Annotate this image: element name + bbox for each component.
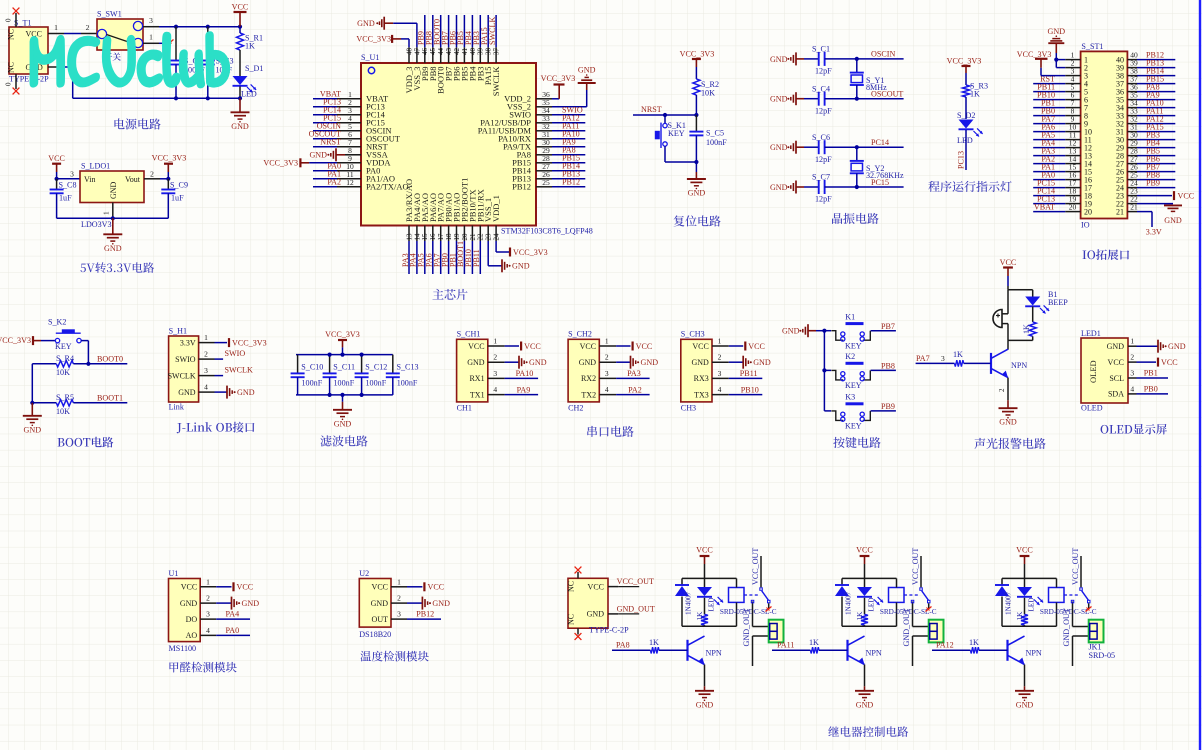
svg-text:GND: GND: [334, 419, 352, 428]
ground GND at pin22: [1164, 205, 1182, 225]
pin 2 GND of U2: [371, 594, 407, 608]
ground GND: [631, 356, 659, 369]
pin 7 of S_ST1: [1065, 98, 1088, 112]
net PB11: [740, 369, 758, 378]
wire ST1 pin28: [1137, 155, 1175, 157]
svg-text:TX1: TX1: [470, 390, 485, 399]
capacitor S_C13: [386, 355, 419, 395]
transistor NPN: [991, 349, 1027, 392]
svg-text:20: 20: [1084, 208, 1092, 217]
wire vcc stem: [342, 347, 344, 354]
svg-text:1K: 1K: [969, 638, 979, 647]
svg-text:GND: GND: [109, 181, 118, 199]
net PA6: [425, 253, 434, 267]
svg-text:VCC: VCC: [524, 342, 541, 351]
net PB11: [472, 249, 481, 267]
svg-text:PB8: PB8: [881, 362, 895, 371]
net PA10: [562, 130, 580, 139]
svg-text:1N4007: 1N4007: [685, 591, 693, 615]
svg-text:DS18B20: DS18B20: [359, 630, 391, 639]
wire vcc to rail: [864, 564, 866, 578]
svg-text:GND: GND: [641, 358, 659, 367]
net PA3: [401, 253, 410, 267]
ground GND: [23, 403, 42, 435]
pin 11 of S_ST1: [1065, 130, 1092, 144]
svg-text:K2: K2: [845, 352, 855, 361]
pin 3 DO of U1: [186, 610, 217, 624]
pin 1 VCC of S_CH2: [580, 337, 616, 351]
svg-text:46: 46: [421, 48, 429, 56]
svg-text:SWCLK: SWCLK: [491, 66, 501, 97]
svg-text:GND_OUT: GND_OUT: [617, 604, 655, 613]
wire pin21 3V3: [1137, 212, 1152, 227]
svg-text:1: 1: [102, 211, 111, 215]
svg-text:S_C4: S_C4: [812, 84, 830, 93]
resistor S_R1: [237, 27, 264, 57]
pin GND of LDO: [112, 203, 114, 219]
svg-text:40: 40: [469, 48, 477, 56]
wire ST1 pin39: [1137, 67, 1175, 69]
svg-text:S_D2: S_D2: [957, 111, 975, 120]
svg-text:1K: 1K: [809, 638, 819, 647]
net PB13: [562, 170, 580, 179]
wire U1 pin5: [313, 130, 337, 132]
wire U1 pin10: [313, 170, 337, 172]
svg-text:S_C1: S_C1: [812, 45, 830, 54]
svg-text:1K: 1K: [1016, 611, 1024, 621]
net VCC_OUT: [911, 548, 920, 585]
pin 3 PC14 of U1: [337, 106, 386, 120]
svg-text:GND: GND: [999, 418, 1017, 427]
wire U1 pin3: [313, 114, 337, 116]
svg-text:1: 1: [397, 577, 401, 586]
junction: [360, 353, 364, 357]
junction: [694, 113, 698, 117]
svg-text:42: 42: [453, 48, 461, 56]
svg-text:GND: GND: [512, 262, 530, 271]
power VCC_3V3 at VDD_1: [510, 248, 548, 257]
power VCC: [633, 342, 653, 351]
wire SW1 pin1 stub: [159, 40, 174, 45]
net SWIO: [562, 106, 583, 115]
net PA12: [562, 114, 580, 123]
svg-text:3: 3: [718, 369, 722, 378]
net PA12: [936, 641, 954, 650]
pin 13 PA3/RX/AO of U1: [404, 179, 414, 241]
svg-text:S_C9: S_C9: [170, 181, 188, 190]
svg-text:VCC_3V3: VCC_3V3: [152, 154, 187, 163]
wire U1 pin2: [313, 106, 337, 108]
wire emitter to gnd: [1024, 665, 1026, 687]
wire pin1: [215, 342, 228, 344]
net PB7: [1146, 162, 1160, 171]
junction: [694, 160, 698, 164]
wire relay top rail: [842, 577, 897, 579]
net PB7: [881, 322, 895, 331]
wire ST1 pin29: [1137, 147, 1175, 149]
net PB15: [562, 154, 580, 163]
svg-text:4: 4: [1130, 384, 1134, 393]
net OSCOUT: [309, 130, 341, 139]
ground GND: [855, 686, 874, 709]
wire vcc to pin 3: [1041, 68, 1065, 76]
svg-text:VCC: VCC: [696, 546, 713, 555]
LED S_D1: [233, 57, 264, 99]
svg-text:U2: U2: [359, 569, 369, 578]
relay coil box: [1049, 578, 1065, 626]
pin 27 PB14 of U1: [512, 162, 552, 176]
switch S_SW1: [97, 10, 143, 51]
svg-text:GND: GND: [529, 358, 547, 367]
resistor 1K: [1022, 307, 1036, 341]
capacitor S_C7: [804, 173, 904, 204]
svg-text:PB0: PB0: [1144, 384, 1158, 393]
net PA2: [1041, 154, 1055, 163]
svg-text:1: 1: [149, 33, 153, 42]
svg-text:S_C8: S_C8: [59, 181, 77, 190]
wire U1 pin11: [313, 178, 337, 180]
power VCC_3V3: [947, 56, 982, 73]
pin 44 BOOT0 of U1: [436, 47, 446, 94]
svg-text:3: 3: [70, 170, 74, 179]
pin 1 GND of LED1: [1107, 337, 1137, 351]
diode 1N4007: [835, 578, 853, 626]
wire vcc down: [1007, 276, 1009, 290]
terminal block connector: [1089, 620, 1104, 643]
svg-text:GND: GND: [770, 95, 788, 104]
wire U1 pin12: [313, 186, 337, 188]
svg-text:LDO3V3: LDO3V3: [81, 220, 112, 229]
wire ST1 pin8: [1033, 115, 1065, 117]
wire VCC to Vin: [57, 172, 80, 179]
ground GND: [695, 686, 714, 709]
svg-text:NRST: NRST: [641, 105, 662, 114]
svg-text:4: 4: [718, 385, 722, 394]
svg-text:RX3: RX3: [694, 374, 709, 383]
svg-text:18: 18: [445, 233, 453, 241]
pin 29 PA8 of U1: [517, 146, 552, 160]
wire gnd: [729, 361, 743, 363]
pin NC top with no-ERC: [5, 8, 20, 27]
junction: [663, 113, 667, 117]
net PB1: [1144, 368, 1158, 377]
wire U1 pin25: [552, 186, 585, 188]
resistor 1K: [696, 598, 708, 627]
label SRD-05VDC-SL-C: [720, 608, 777, 616]
wire bottom junction: [1008, 339, 1033, 341]
resistor 1K base: [809, 638, 819, 653]
wire U1 pin4: [313, 122, 337, 124]
power VCC_3V3: [229, 338, 267, 347]
pin 3 RX3 of S_CH3: [694, 369, 729, 383]
pin 2 GND of S_CH3: [691, 353, 728, 367]
svg-text:TX2: TX2: [581, 390, 596, 399]
net PA11: [562, 122, 579, 131]
wire terminal 1: [911, 600, 928, 626]
svg-text:VCC: VCC: [48, 154, 65, 163]
svg-text:TYPE-C-2P: TYPE-C-2P: [589, 625, 629, 634]
net PC14: [1037, 186, 1055, 195]
wire ST1 pin19: [1033, 203, 1065, 205]
wire ST1 pin32: [1137, 123, 1175, 125]
svg-text:K3: K3: [845, 393, 855, 402]
wire rx: [616, 377, 650, 379]
wire gnd to bus: [816, 330, 824, 332]
svg-text:S_LDO1: S_LDO1: [81, 162, 110, 171]
svg-text:12pF: 12pF: [815, 67, 832, 76]
pin 27 of S_ST1: [1116, 154, 1138, 168]
pin 24 VDD_1 of U1: [491, 195, 501, 241]
wire gnd rail: [57, 217, 169, 219]
wire U1 pin37: [495, 15, 497, 47]
relay armature: [1080, 588, 1090, 603]
wire U1 pin1: [313, 98, 337, 100]
svg-text:VCC_OUT: VCC_OUT: [617, 577, 654, 586]
net PB8: [425, 31, 434, 45]
pin 7 NRST of U1: [337, 138, 389, 152]
svg-text:1K: 1K: [696, 611, 704, 621]
net PA9: [562, 138, 576, 147]
wire vcc to R2: [695, 67, 697, 79]
net PB6: [1146, 154, 1160, 163]
svg-text:3: 3: [493, 369, 497, 378]
svg-text:2: 2: [493, 353, 497, 362]
svg-text:15: 15: [421, 233, 429, 241]
svg-text:PA2: PA2: [327, 178, 341, 187]
wire VDD_3 vcc: [401, 39, 409, 47]
net PA5: [1041, 130, 1055, 139]
wire bus to key: [824, 410, 831, 412]
svg-text:1: 1: [54, 23, 58, 32]
wire ST1 pin14: [1033, 163, 1065, 165]
relay armature: [920, 588, 930, 603]
svg-text:PB12: PB12: [562, 178, 580, 187]
wire VSS_2: [552, 90, 587, 107]
svg-text:NPN: NPN: [1026, 649, 1042, 658]
svg-text:1K: 1K: [649, 638, 659, 647]
pin 31 of S_ST1: [1116, 122, 1138, 136]
pin 20 of S_ST1: [1065, 202, 1092, 216]
svg-text:BEEP: BEEP: [1048, 298, 1068, 307]
wire ST1 pin34: [1137, 107, 1175, 109]
net PB0: [1144, 384, 1158, 393]
svg-text:VCC_OUT: VCC_OUT: [911, 548, 920, 585]
resistor S_R3: [963, 82, 989, 99]
svg-text:PA4: PA4: [226, 610, 240, 619]
svg-text:14: 14: [413, 233, 421, 241]
LED S_D2: [957, 111, 983, 145]
net PB9: [1146, 178, 1160, 187]
svg-text:RX2: RX2: [581, 374, 596, 383]
pin 32 of S_ST1: [1116, 114, 1138, 128]
power VCC: [424, 582, 444, 591]
relay contact linkage: [904, 594, 920, 596]
wire relay bottom rail: [682, 625, 737, 627]
wire U1 pin26: [552, 178, 585, 180]
title 甲醛检测模块: [169, 662, 236, 673]
net 3.3V: [1146, 228, 1162, 237]
ground GND: [687, 162, 706, 198]
svg-text:DO: DO: [186, 615, 198, 624]
svg-text:VCC: VCC: [372, 583, 388, 592]
pin number 3: [941, 354, 945, 363]
wire pin3: [1137, 377, 1169, 379]
svg-text:3: 3: [206, 610, 210, 619]
svg-text:S_U1: S_U1: [361, 53, 379, 62]
svg-text:1: 1: [605, 337, 609, 346]
pin 20 PB2/BOOT1 of U1: [459, 178, 469, 241]
wire pin1: [1137, 345, 1159, 347]
svg-text:VCC: VCC: [1161, 358, 1178, 367]
svg-text:U1: U1: [169, 569, 179, 578]
svg-text:Vin: Vin: [84, 175, 96, 184]
capacitor S_C3: [201, 27, 234, 99]
pin 2 VCC of LED1: [1108, 353, 1137, 367]
wire U1 pin22: [479, 241, 481, 274]
wire ST1 pin5: [1033, 91, 1065, 93]
svg-text:NC: NC: [567, 581, 576, 592]
wire tx: [729, 394, 763, 396]
net VCC_OUT: [1071, 548, 1080, 585]
net PA7: [1041, 114, 1055, 123]
net GND_OUT: [617, 604, 655, 613]
pin 2 GND of S_CH1: [467, 353, 504, 367]
transistor NPN relay: [1008, 636, 1042, 664]
pin 22 PB11/RX of U1: [475, 189, 485, 241]
svg-text:SWIO: SWIO: [225, 349, 246, 358]
svg-text:VCC_3V3: VCC_3V3: [541, 74, 576, 83]
net PB9: [417, 31, 426, 45]
svg-text:2: 2: [150, 170, 154, 179]
wire U1 pin46: [424, 15, 426, 47]
svg-text:K1: K1: [845, 313, 855, 322]
svg-text:PA3: PA3: [627, 369, 641, 378]
net PA1: [327, 170, 341, 179]
svg-text:STM32F103C8T6_LQFP48: STM32F103C8T6_LQFP48: [501, 227, 593, 236]
net PA2: [327, 178, 341, 187]
svg-text:OLED: OLED: [1081, 404, 1103, 413]
svg-text:12: 12: [346, 178, 354, 187]
wire U1 pin31: [552, 138, 585, 140]
wire NRST: [633, 114, 696, 116]
net PB3: [472, 31, 481, 45]
svg-text:KEY: KEY: [845, 342, 862, 351]
junction: [855, 97, 859, 101]
wire U1 pin40: [471, 15, 473, 47]
svg-text:4: 4: [493, 385, 497, 394]
sheet border: [1199, 0, 1201, 750]
capacitor S_C6: [804, 133, 904, 164]
junction: [328, 393, 332, 397]
pin NC bottom with no-ERC: [5, 74, 20, 94]
svg-text:NPN: NPN: [706, 649, 722, 658]
net PB13: [1146, 58, 1164, 67]
wire vcc: [729, 345, 743, 347]
relay coil box: [889, 578, 905, 626]
svg-text:S_C6: S_C6: [812, 133, 830, 142]
svg-text:GND: GND: [357, 19, 375, 28]
svg-text:100nF: 100nF: [397, 378, 418, 387]
svg-text:GND: GND: [231, 122, 249, 131]
wire T1-VCC to SW1: [64, 33, 81, 35]
wire bottom rail: [296, 394, 393, 396]
pin 4 AO of U1: [186, 626, 217, 640]
title 温度检测模块: [360, 651, 428, 662]
wire pin3: [215, 375, 224, 377]
pin 41 PB5 of U1: [459, 47, 469, 81]
power VCC_3V3 at VDD_2: [541, 74, 576, 99]
net PB14: [562, 162, 580, 171]
wire U1 pin34: [552, 114, 585, 116]
svg-text:1K: 1K: [245, 42, 255, 51]
power VCC (PA8 relay): [696, 546, 713, 564]
pin 32 PA11/USB/DM of U1: [478, 122, 552, 136]
wire gnd to pins 1-2: [1056, 53, 1065, 68]
pin 3 SWCLK of S_H1: [168, 366, 215, 380]
pin 13 of S_ST1: [1065, 146, 1092, 160]
junction: [206, 96, 210, 100]
diode 1N4007: [995, 578, 1013, 626]
pin 10 PA0 of U1: [337, 162, 380, 176]
net PA4: [1041, 138, 1055, 147]
pin 4 of S_ST1: [1065, 74, 1088, 88]
svg-text:LED: LED: [708, 598, 716, 612]
wire R3 to LED: [965, 97, 967, 119]
label 开关: [104, 53, 121, 61]
svg-text:VCC: VCC: [588, 582, 604, 591]
svg-text:3: 3: [941, 354, 945, 363]
net PA10: [516, 369, 534, 378]
wire ST1 pin24: [1137, 187, 1175, 189]
svg-text:21: 21: [469, 233, 477, 241]
wire U1 pin28: [552, 162, 585, 164]
svg-text:NC: NC: [7, 29, 16, 40]
key K3: [831, 393, 870, 431]
junction: [55, 177, 59, 181]
svg-text:1: 1: [493, 337, 497, 346]
wire pin2: [215, 358, 224, 360]
svg-text:RX1: RX1: [469, 374, 484, 383]
wire base: [612, 649, 688, 651]
svg-text:LED: LED: [1028, 598, 1036, 612]
svg-text:100nF: 100nF: [366, 378, 387, 387]
wire key to PB9: [871, 410, 896, 412]
title BOOT电路: [58, 437, 114, 448]
svg-text:PC13: PC13: [956, 151, 965, 169]
svg-text:0: 0: [5, 18, 13, 22]
junction: [111, 216, 115, 220]
wire vcc to R3: [965, 73, 967, 85]
power VCC (PA11 relay): [856, 546, 873, 564]
wire ST1 pin4: [1033, 83, 1065, 85]
svg-text:PA11: PA11: [777, 641, 794, 650]
power VCC_3V3: [152, 154, 187, 179]
net PA3: [1041, 146, 1055, 155]
junction: [206, 25, 210, 29]
svg-text:VCC: VCC: [1016, 546, 1033, 555]
svg-text:VCC: VCC: [237, 583, 254, 592]
svg-text:S_C5: S_C5: [706, 129, 724, 138]
pin 11 PA1/AO of U1: [337, 170, 395, 184]
svg-text:38: 38: [485, 48, 493, 56]
ground GND: [782, 324, 816, 337]
pin 36 VDD_2 of U1: [504, 90, 552, 104]
svg-text:41: 41: [461, 48, 469, 56]
net VCC_OUT: [751, 548, 760, 585]
wire VSS_3 gnd: [393, 23, 417, 47]
pin 1 3.3V of S_H1: [180, 333, 215, 347]
svg-text:1uF: 1uF: [171, 194, 184, 203]
